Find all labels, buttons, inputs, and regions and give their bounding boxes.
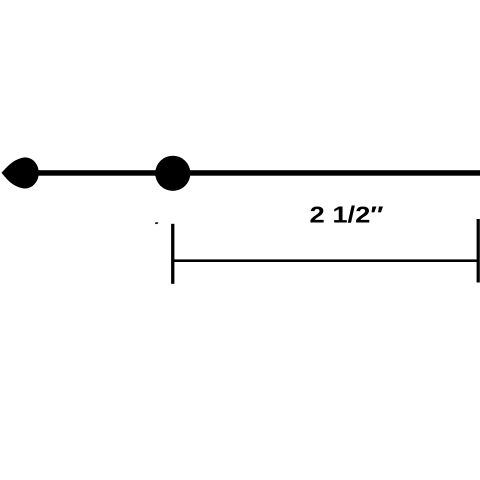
dimension line (horizontal) (173, 259, 479, 262)
node: filled circle on the rod (155, 156, 190, 191)
wire: main horizontal rod line (24, 170, 480, 176)
stray mark (155, 222, 158, 224)
dimension tick right (477, 219, 480, 283)
dimension tick left (171, 224, 174, 284)
svg-text:2 1/2″: 2 1/2″ (310, 202, 384, 228)
arrowhead (leaf-shaped, pointing left) (2, 157, 39, 188)
